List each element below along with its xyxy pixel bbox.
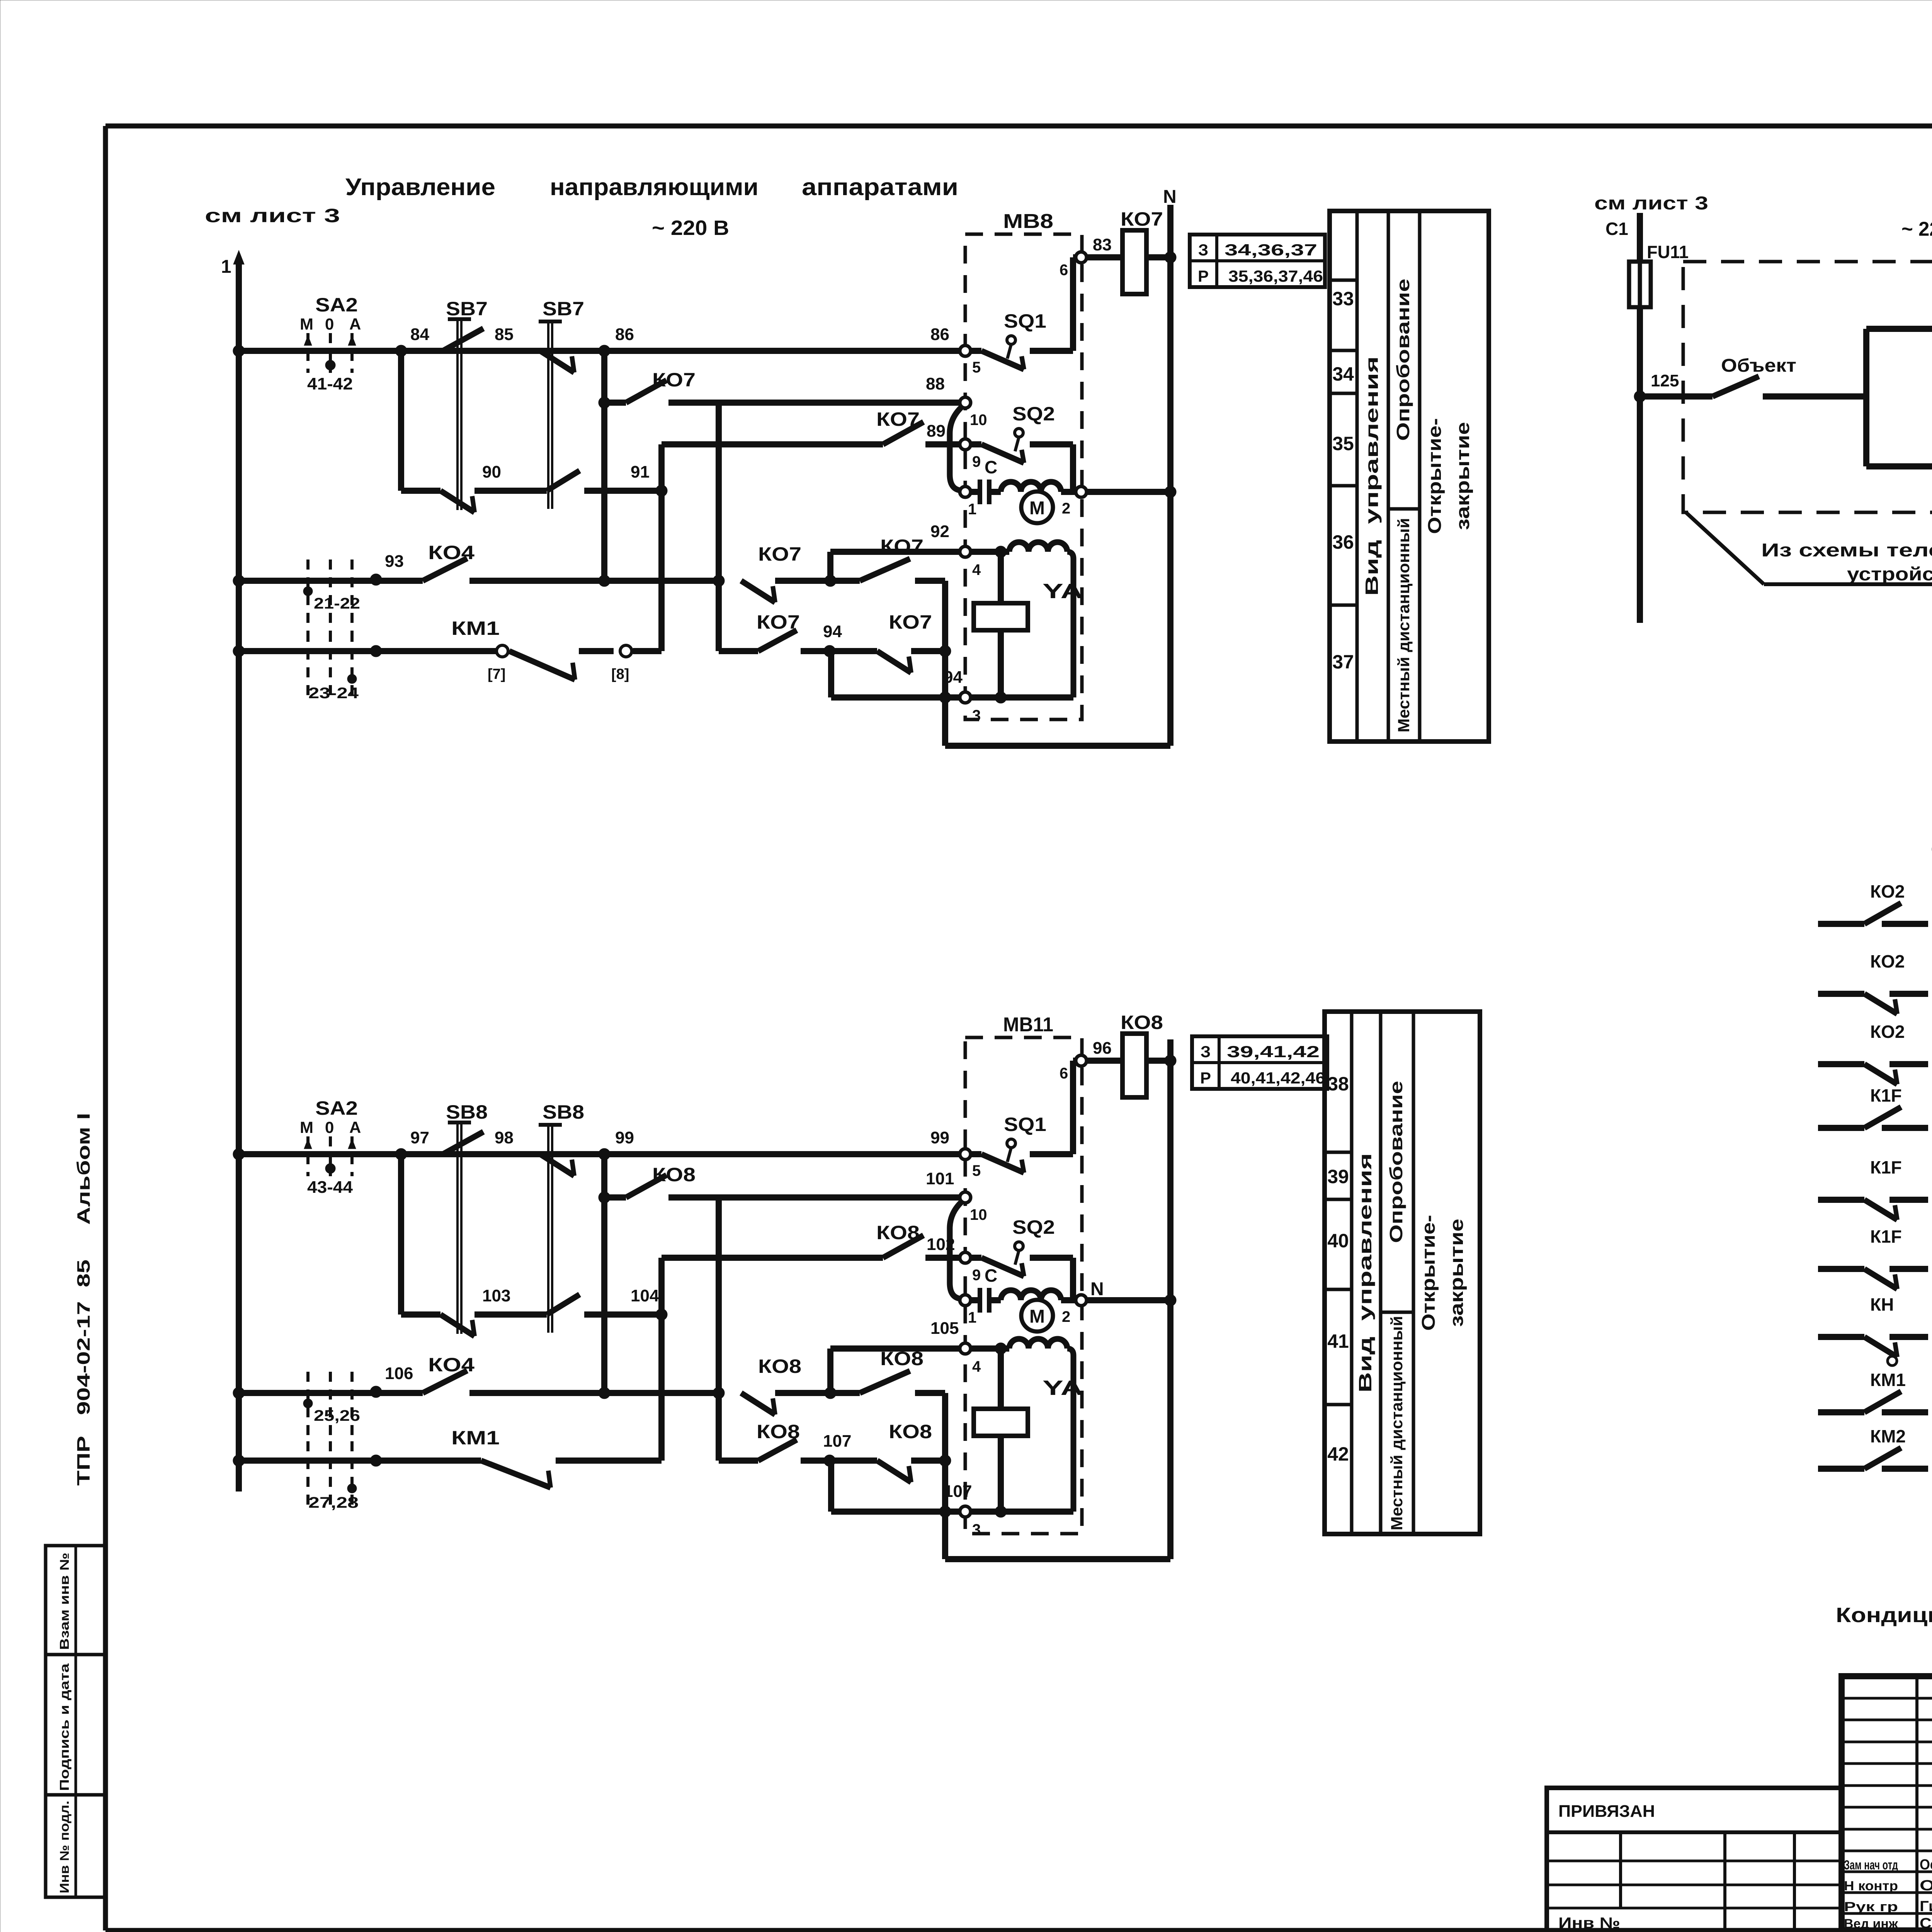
svg-text:39: 39 [1327, 1166, 1349, 1187]
mode table (upper circuit) Vid upravleniya [1330, 211, 1489, 742]
svg-text:Вид управления: Вид управления [1355, 1153, 1375, 1393]
junction bus KM1 row [233, 1455, 245, 1466]
node 6 circle [1076, 1055, 1087, 1066]
svg-text:4: 4 [972, 1358, 981, 1375]
svg-text:34,36,37: 34,36,37 [1225, 241, 1317, 259]
svg-text:КМ1: КМ1 [451, 1427, 500, 1449]
motor aux winding [1001, 1345, 1009, 1352]
junction row B tee (riser from rung1) [599, 575, 610, 587]
svg-text:КО7: КО7 [652, 369, 696, 391]
wire SQ1 to node 6 riser [1070, 1061, 1076, 1154]
contact КО8 row B no.2 (NO) [830, 1390, 860, 1396]
svg-text:43-44: 43-44 [307, 1178, 353, 1197]
svg-text:КМ1: КМ1 [451, 617, 500, 639]
svg-text:9: 9 [972, 453, 981, 470]
svg-text:КО7: КО7 [1121, 208, 1163, 230]
svg-text:Управление: Управление [345, 174, 495, 201]
motor M [1021, 492, 1053, 523]
mode table (lower circuit) Vid upravleniya [1325, 1012, 1480, 1534]
privyazan table [1547, 1788, 1842, 1932]
svg-text:37: 37 [1332, 651, 1354, 673]
svg-text:SQ1: SQ1 [1004, 1114, 1046, 1135]
svg-text:40: 40 [1327, 1230, 1349, 1252]
junction node3 / outer riser [939, 692, 951, 703]
svg-text:З: З [1201, 1043, 1211, 1061]
svg-text:КО2: КО2 [1870, 951, 1905, 971]
svg-text:А: А [349, 315, 361, 333]
junction row C / riser to node3 [824, 1455, 835, 1466]
svg-text:см лист 3: см лист 3 [205, 205, 340, 226]
svg-text:N: N [1163, 187, 1177, 207]
svg-text:~ 220 В: ~ 220 В [652, 216, 729, 240]
svg-text:Опробование: Опробование [1393, 279, 1413, 441]
wire outer riser rowB-rowC-node3-bottom [942, 1393, 948, 1559]
svg-text:23-24: 23-24 [308, 685, 359, 702]
contact КО8 on rung 3 [883, 1235, 923, 1258]
svg-text:103: 103 [482, 1286, 510, 1305]
junction rung1 / down feeder [599, 345, 610, 357]
junction N bus / coil [1165, 252, 1176, 263]
svg-text:Саверова: Саверова [1920, 1915, 1932, 1932]
svg-text:Из схемы телемеханического: Из схемы телемеханического [1761, 540, 1932, 561]
margin stamp box Podpis i data [46, 1655, 105, 1795]
junction row C / riser to node3 [824, 645, 835, 657]
junction bypass / KM1 riser [656, 485, 667, 497]
junction node4 / YA riser [995, 546, 1007, 558]
junction node4 / YA riser [995, 1343, 1007, 1354]
wire node 2 to N bus [1086, 1297, 1170, 1303]
junction KO4 row dashes [370, 574, 382, 585]
wire KO4 contact to row B [469, 578, 719, 584]
svg-text:5: 5 [972, 1162, 981, 1179]
wire node10 to node1 (inner curve) [950, 406, 962, 490]
node 2 circle [1076, 486, 1087, 497]
junction rung1 / down feeder [599, 1148, 610, 1160]
svg-text:КО8: КО8 [652, 1164, 696, 1185]
svg-text:Н контр: Н контр [1844, 1879, 1898, 1893]
cross-reference table [1190, 235, 1325, 287]
contact КО8 row C no.1 (NO) [758, 1440, 797, 1461]
wire bypass line 90 [401, 488, 440, 494]
svg-text:~ 220 В: ~ 220 В [1901, 218, 1932, 240]
terminal dashes 23-24 [306, 632, 310, 697]
wire node4 line [830, 1345, 960, 1352]
svg-text:Огненко: Огненко [1920, 1878, 1932, 1894]
svg-text:38: 38 [1327, 1073, 1349, 1095]
wire riser rung2 to row C [716, 1197, 722, 1461]
svg-text:[7]: [7] [488, 666, 505, 682]
svg-text:83: 83 [1093, 235, 1112, 254]
svg-text:39,41,42: 39,41,42 [1227, 1043, 1320, 1061]
svg-text:Местный дистанционный: Местный дистанционный [1395, 518, 1413, 733]
wire rung 84-86 from bus to node 5 [239, 348, 960, 354]
wire node10 to node1 (inner curve) [950, 1201, 962, 1299]
svg-text:[8]: [8] [611, 666, 629, 682]
bus C1 (right circuit feeder) [1637, 213, 1643, 623]
svg-text:устройства: устройства [1847, 564, 1932, 585]
svg-text:МВ8: МВ8 [1003, 210, 1053, 233]
svg-text:99: 99 [930, 1128, 949, 1147]
svg-text:0: 0 [325, 1118, 334, 1136]
wire riser rung2 to row C [716, 403, 722, 651]
svg-text:SA2: SA2 [315, 294, 358, 316]
svg-text:SB7: SB7 [543, 298, 584, 320]
wire KO4 row from bus [239, 578, 423, 584]
wire SQ1 to node 6 riser [1070, 257, 1076, 351]
wire vertical bypass corner [398, 351, 404, 491]
junction row B / riser to node4 line [825, 575, 836, 587]
junction KM1 row dashes [370, 1455, 382, 1466]
svg-text:41-42: 41-42 [307, 374, 353, 393]
svg-text:YA: YA [1043, 1376, 1083, 1400]
junction row B / riser to node4 line [825, 1387, 836, 1399]
svg-text:107: 107 [944, 1482, 972, 1501]
wire riser node4-line to row B [827, 552, 833, 581]
svg-text:К1F: К1F [1870, 1157, 1902, 1177]
node 10 circle [960, 397, 971, 408]
svg-text:SQ2: SQ2 [1012, 1216, 1055, 1238]
svg-text:Р: Р [1200, 1069, 1211, 1087]
cross-reference table [1192, 1036, 1327, 1089]
node 9 circle [960, 1252, 971, 1263]
wire riser rung3-bypass-KM1 row [658, 444, 665, 651]
svg-text:94: 94 [944, 668, 963, 687]
wire KO4 row from bus [239, 1390, 423, 1396]
title block outer frame [1842, 1676, 1932, 1930]
svg-text:М: М [1029, 1306, 1045, 1327]
svg-text:Зам нач отд: Зам нач отд [1844, 1858, 1898, 1872]
svg-text:97: 97 [410, 1128, 429, 1147]
svg-text:2: 2 [1062, 500, 1070, 517]
junction N bus motor line [1165, 1294, 1176, 1306]
svg-text:5: 5 [972, 359, 981, 376]
svg-text:С1: С1 [1605, 219, 1628, 239]
svg-text:КО8: КО8 [889, 1421, 932, 1442]
svg-text:84: 84 [410, 325, 429, 344]
motor main winding [1001, 1290, 1061, 1300]
svg-text:КН: КН [1870, 1294, 1894, 1315]
svg-text:С: С [985, 1265, 997, 1286]
svg-text:закрытие: закрытие [1447, 1219, 1467, 1327]
svg-text:4: 4 [972, 561, 981, 578]
contact КО7 row B no.2 (NO) [830, 578, 860, 584]
svg-text:3: 3 [972, 1521, 981, 1538]
svg-text:N: N [1090, 1279, 1104, 1299]
svg-text:21-22: 21-22 [314, 595, 360, 612]
contact КО7 on rung 3 [883, 422, 923, 444]
junction row C / outer riser [939, 645, 951, 657]
svg-text:КО8: КО8 [876, 1222, 920, 1243]
svg-text:106: 106 [385, 1364, 413, 1383]
contact Otkl [1866, 463, 1932, 469]
wire rung 97-99 from bus to node 5 [239, 1151, 960, 1157]
svg-text:КО8: КО8 [1121, 1012, 1163, 1033]
junction bus KO4 row [233, 1387, 245, 1399]
junction rung1 / bypass branch [395, 1148, 407, 1160]
wire rung 3 (102) [662, 1255, 883, 1261]
svg-text:105: 105 [930, 1319, 959, 1338]
svg-text:М: М [300, 1118, 313, 1136]
svg-text:КО2: КО2 [1870, 1022, 1905, 1042]
wire node3 line [831, 694, 960, 701]
junction bypass / KM1 riser [656, 1309, 667, 1320]
junction node3 / YA [995, 692, 1007, 703]
junction row B / riser to row C [713, 1387, 724, 1399]
title block left rows [1842, 1697, 1932, 1700]
svg-text:Открытие-: Открытие- [1425, 418, 1445, 534]
svg-text:Р: Р [1198, 267, 1209, 285]
wire node4 line [830, 549, 960, 555]
contact КО7 row B no.1 (NC) [741, 581, 775, 602]
svg-text:Кондиционер: Кондиционер [1836, 1604, 1932, 1627]
svg-text:35,36,37,46: 35,36,37,46 [1228, 267, 1323, 285]
junction KO4 row dashes [370, 1386, 382, 1398]
wire outer riser rowB-rowC-node3-bottom [942, 581, 948, 746]
svg-text:35: 35 [1332, 433, 1354, 454]
svg-text:МВ11: МВ11 [1003, 1014, 1053, 1036]
junction KM1 row dashes [370, 645, 382, 657]
svg-text:SQ1: SQ1 [1004, 310, 1046, 332]
svg-text:FU11: FU11 [1647, 242, 1689, 262]
svg-text:КО7: КО7 [757, 611, 800, 633]
svg-text:КО7: КО7 [889, 611, 932, 633]
contact КО7 on rung 2 [604, 400, 626, 406]
contact КО7 row C no.1 (NO) [758, 630, 797, 651]
svg-text:1: 1 [221, 257, 231, 277]
svg-text:Открытие-: Открытие- [1418, 1215, 1439, 1331]
svg-text:Взам инв №: Взам инв № [57, 1553, 71, 1650]
svg-text:SA2: SA2 [315, 1097, 358, 1119]
wire row C from riser [719, 648, 758, 654]
node 5 circle [960, 1149, 971, 1160]
svg-text:КО7: КО7 [758, 543, 801, 565]
svg-text:КО7: КО7 [876, 408, 920, 430]
sheet frame border [103, 126, 108, 1930]
svg-text:КО8: КО8 [758, 1355, 801, 1377]
svg-text:92: 92 [930, 522, 949, 541]
junction N bus motor line [1165, 486, 1176, 498]
svg-text:К1F: К1F [1870, 1085, 1902, 1105]
margin stamp box Inv No podl [46, 1795, 105, 1897]
svg-text:КМ1: КМ1 [1870, 1370, 1906, 1390]
title block left columns [1915, 1676, 1918, 1930]
device box МВ11 (dashed) [965, 1037, 1082, 1534]
junction node3 / outer riser [939, 1506, 951, 1517]
svg-text:9: 9 [972, 1267, 981, 1284]
junction bus / Objekt wire [1634, 391, 1646, 402]
svg-text:90: 90 [482, 463, 501, 481]
node 5 circle [960, 345, 971, 356]
junction N bus / coil [1165, 1055, 1176, 1066]
wire KM1 row from bus [239, 1458, 481, 1464]
contact КО7 row C no.2 (NC) [877, 651, 911, 673]
terminal dashes 27,28 [306, 1441, 310, 1507]
svg-text:2: 2 [1062, 1308, 1070, 1325]
node 1 circle [960, 1295, 971, 1306]
contact КО8 on rung 2 [604, 1194, 626, 1201]
svg-text:аппаратами: аппаратами [802, 174, 958, 201]
node 1 circle [960, 486, 971, 497]
svg-text:Объект: Объект [1721, 355, 1796, 376]
svg-text:101: 101 [926, 1169, 954, 1188]
svg-text:Опробование: Опробование [1386, 1081, 1406, 1243]
wire row C from riser [719, 1458, 758, 1464]
svg-text:Рук гр: Рук гр [1844, 1900, 1898, 1914]
svg-text:10: 10 [970, 412, 987, 429]
svg-text:направляющими: направляющими [550, 174, 759, 201]
junction bus-rung1 [233, 1148, 245, 1160]
svg-text:86: 86 [930, 325, 949, 344]
telemechanics dashed box [1683, 262, 1932, 512]
margin stamp box Vzam inv No [46, 1546, 105, 1655]
node 6 circle [1076, 252, 1087, 263]
svg-text:Вид управления: Вид управления [1362, 356, 1382, 596]
svg-text:10: 10 [970, 1206, 987, 1223]
svg-text:125: 125 [1651, 371, 1679, 390]
svg-text:С: С [985, 457, 997, 477]
svg-text:Инв № подл.: Инв № подл. [57, 1801, 71, 1893]
contact КО8 row B no.1 (NC) [741, 1393, 775, 1415]
junction rung1 / bypass branch [395, 345, 407, 357]
svg-text:0: 0 [325, 315, 334, 333]
wire riser row C to node3 line [828, 1461, 834, 1512]
svg-text:40,41,42,46: 40,41,42,46 [1231, 1069, 1325, 1087]
svg-text:86: 86 [615, 325, 634, 344]
bus line 1 (left vertical feeder) [236, 260, 242, 1492]
node 4 circle [960, 546, 971, 557]
node 2 circle [1076, 1295, 1087, 1306]
svg-text:SQ2: SQ2 [1012, 403, 1055, 425]
svg-text:YA: YA [1043, 580, 1083, 603]
wire vertical feeder rung1-rung2-row B [601, 351, 607, 581]
svg-text:88: 88 [926, 374, 945, 393]
terminal dashes 25,26 [306, 1372, 310, 1445]
svg-text:см лист 3: см лист 3 [1594, 193, 1708, 214]
junction row B tee (riser from rung1) [599, 1387, 610, 1399]
wire riser rung3-bypass-KM1 row [658, 1258, 665, 1461]
svg-text:КМ2: КМ2 [1870, 1426, 1906, 1446]
svg-text:41: 41 [1327, 1330, 1349, 1352]
junction row B / riser to row C [713, 575, 724, 587]
svg-text:Островский: Островский [1920, 1857, 1932, 1873]
svg-text:36: 36 [1332, 531, 1354, 553]
wire KO4 contact to row B [469, 1390, 719, 1396]
node 3 circle [960, 692, 971, 703]
svg-text:1: 1 [968, 501, 976, 518]
svg-text:27,28: 27,28 [308, 1494, 359, 1511]
wire node3 line [831, 1509, 960, 1515]
svg-text:85: 85 [495, 325, 514, 344]
wire rung 3 (89) [662, 441, 883, 447]
contact Vkl [1866, 326, 1932, 332]
junction bus KM1 row [233, 645, 245, 657]
bus N (right vertical) [1167, 1039, 1173, 1559]
junction node3 / YA [995, 1506, 1007, 1517]
wire bottom return [945, 1556, 1170, 1562]
svg-text:1: 1 [968, 1309, 976, 1326]
svg-text:закрытие: закрытие [1453, 422, 1473, 530]
svg-text:Инв №: Инв № [1558, 1915, 1620, 1932]
svg-text:34: 34 [1332, 363, 1354, 385]
svg-text:104: 104 [631, 1286, 659, 1305]
bus N (right vertical) [1167, 205, 1173, 746]
svg-text:93: 93 [385, 552, 404, 571]
wire node 2 to N bus [1086, 489, 1170, 495]
svg-text:Местный дистанционный: Местный дистанционный [1388, 1316, 1406, 1531]
node 10 circle [960, 1192, 971, 1203]
svg-text:SB8: SB8 [543, 1101, 584, 1123]
svg-text:89: 89 [927, 422, 946, 440]
node 3 circle [960, 1506, 971, 1517]
terminal dashes 21-22 [306, 560, 310, 633]
svg-text:33: 33 [1332, 288, 1354, 310]
svg-text:А: А [349, 1118, 361, 1136]
svg-text:91: 91 [631, 463, 650, 481]
node 4 circle [960, 1343, 971, 1354]
wire split Vkl/Otkl [1863, 329, 1869, 466]
wire bottom return [945, 743, 1170, 749]
svg-text:ТПР 904-02-17 85 Альбом: ТПР 904-02-17 85 Альбом I [73, 1113, 94, 1486]
wire KM1 row from bus [239, 648, 497, 654]
svg-text:З: З [1198, 241, 1208, 259]
svg-text:94: 94 [823, 622, 842, 641]
junction rung2 tee [599, 1192, 610, 1203]
svg-text:SB7: SB7 [446, 298, 488, 320]
svg-text:25,26: 25,26 [314, 1407, 360, 1424]
device box МВ8 (dashed) [965, 234, 1082, 719]
wire riser node4-line to row B [827, 1349, 833, 1393]
svg-text:96: 96 [1093, 1039, 1112, 1058]
svg-text:ПРИВЯЗАН: ПРИВЯЗАН [1558, 1802, 1655, 1821]
wire vertical bypass corner [398, 1154, 404, 1315]
svg-text:Вед инж: Вед инж [1844, 1917, 1898, 1931]
wire vertical feeder rung1-rung2-row B [601, 1154, 607, 1393]
junction rung2 tee [599, 397, 610, 408]
svg-text:42: 42 [1327, 1443, 1349, 1465]
contact КО8 row C no.2 (NC) [877, 1461, 911, 1482]
svg-text:М: М [300, 315, 313, 333]
svg-text:М: М [1029, 498, 1045, 519]
wire riser row C to node3 line [828, 651, 834, 697]
motor M [1021, 1300, 1053, 1332]
svg-text:107: 107 [823, 1432, 851, 1451]
junction row C / outer riser [939, 1455, 951, 1466]
svg-text:Гинодман: Гинодман [1920, 1898, 1932, 1915]
wire bypass line 103 [401, 1311, 440, 1318]
svg-text:3: 3 [972, 707, 981, 724]
svg-text:6: 6 [1060, 1065, 1068, 1082]
svg-text:КО8: КО8 [757, 1421, 800, 1442]
svg-text:КО2: КО2 [1870, 881, 1905, 901]
svg-text:К1F: К1F [1870, 1226, 1902, 1247]
junction bus KO4 row [233, 575, 245, 587]
node 9 circle [960, 439, 971, 450]
svg-text:SB8: SB8 [446, 1101, 488, 1123]
svg-text:6: 6 [1060, 262, 1068, 279]
motor main winding [1001, 482, 1061, 492]
svg-text:99: 99 [615, 1128, 634, 1147]
junction bus-rung1 [233, 345, 245, 357]
svg-text:Подпись и дата: Подпись и дата [57, 1663, 71, 1791]
svg-text:98: 98 [495, 1128, 514, 1147]
motor aux winding [1001, 549, 1009, 555]
